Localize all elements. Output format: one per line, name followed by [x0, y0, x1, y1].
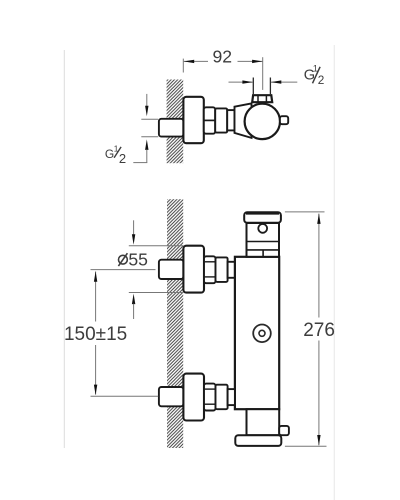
connector sleeve (top view) [215, 108, 227, 132]
svg-text:150±15: 150±15 [64, 324, 127, 345]
wall (front view, hatched) [167, 199, 183, 448]
dim 92 line [184, 60, 263, 63]
label G1/2 left [105, 143, 126, 166]
dim line 276 bottom extension [285, 445, 327, 447]
svg-text:276: 276 [303, 320, 335, 341]
wall (top view, hatched) [167, 80, 184, 164]
svg-text:2: 2 [318, 73, 325, 87]
wall flange (top view) [183, 97, 203, 143]
dim line 276 top extension [285, 211, 325, 213]
top inlet pipe (front view) [159, 260, 184, 279]
side tab (top view) [280, 116, 288, 124]
valve body circle (top view) [245, 104, 280, 139]
bottom connector nut (front view) [204, 384, 216, 411]
dim 92 extension line right [262, 57, 264, 90]
bottom cap (front view) [235, 435, 281, 446]
inlet pipe (top view) [159, 119, 184, 137]
faint page divider line left [63, 50, 65, 448]
head screw circle [258, 224, 267, 233]
svg-text:2: 2 [119, 151, 126, 166]
shower outlet nut (top view) [252, 95, 272, 102]
dim 92 extension line left [182, 59, 184, 73]
top wall flange (front view) [183, 246, 204, 293]
dim 276 vertical line [317, 213, 320, 445]
bottom connector sleeve (front view) [216, 385, 228, 410]
top connector ring (front view) [228, 262, 235, 278]
label G1/2 top [304, 64, 325, 87]
dim o55 arrows [132, 220, 135, 319]
top connector nut (front view) [204, 256, 216, 283]
faint page divider line right [333, 45, 335, 500]
dim o55: flange top extension [129, 245, 184, 247]
G1/2 left dimension (inlet bore, top view) [133, 94, 158, 163]
outlet pipe lines (top view) [253, 78, 270, 95]
body screw circle (front view) [253, 325, 271, 343]
lower body section (front view) [247, 409, 280, 435]
dim 150: bottom extension line [91, 395, 159, 397]
dim o55: flange bottom extension [129, 292, 184, 294]
G1/2 top arrows [229, 80, 298, 83]
svg-text:55: 55 [128, 249, 148, 269]
bottom connector ring (front view) [228, 389, 235, 405]
valve main body (front view) [235, 257, 279, 409]
bottom inlet pipe (front view) [159, 387, 184, 406]
cartridge head (front view) [247, 223, 280, 257]
dim 150 vertical line [94, 271, 97, 395]
lower side tab (front view) [279, 426, 289, 435]
top connector sleeve (front view) [216, 257, 228, 282]
dim text o55 [118, 249, 148, 269]
bottom wall flange (front view) [183, 374, 204, 421]
dim 150: top extension line [91, 269, 156, 271]
connector ring (top view) [227, 110, 234, 130]
connector nut (top view) [204, 107, 215, 133]
top cap (front view) [244, 212, 281, 223]
svg-text:92: 92 [213, 46, 233, 66]
body cone (top view) [235, 103, 252, 137]
